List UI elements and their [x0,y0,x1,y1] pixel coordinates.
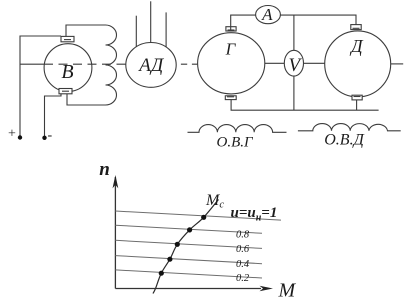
wire V to D [304,62,325,64]
wire + terminal riser [20,36,61,138]
brush D top [351,25,361,30]
svg-text:В: В [61,61,73,83]
graph axes [115,177,261,289]
line 0.4 [115,256,262,264]
svg-text:Мс: Мс [205,192,224,211]
node + terminal [18,135,22,139]
brush G top [226,27,236,31]
axis M horizontal [115,288,261,290]
wire top brush to field coil [66,25,106,36]
line 0.6 [115,240,262,248]
arrowhead n axis [113,175,119,188]
wire D shaft stub [391,63,404,65]
node dot line5 [159,271,164,276]
brush G bottom [225,96,236,100]
svg-text:0.2: 0.2 [236,273,250,284]
inductor O.V.D field winding [298,124,401,131]
curve Mc load [153,200,219,294]
node dot line3 [175,242,180,247]
svg-text:n: n [99,159,110,180]
wire top bus G to ammeter [231,15,256,29]
line 0.8 [115,225,262,233]
axis n vertical [114,177,116,289]
wire V top drop [293,15,295,50]
svg-text:u=uн=1: u=uн=1 [231,205,278,224]
wire bottom bus [231,100,379,111]
wire phase line L3 [165,12,167,51]
machine B (exciter) [44,44,92,92]
node dot line4 [167,257,172,262]
arrowhead M axis [260,286,274,292]
brush B top [61,36,74,41]
svg-text:0.6: 0.6 [236,244,250,255]
inductor O.V.G field winding [188,125,287,133]
generator G circle [198,33,265,94]
motor AD (induction) [126,43,176,88]
wire shaft dashed AD-G [176,63,197,65]
characteristic lines u [115,211,281,278]
wire G right to V [265,62,285,64]
brush B bottom [59,89,72,94]
svg-text:A: A [261,5,273,24]
svg-text:Д: Д [349,36,364,56]
ammeter A [256,6,281,24]
node - terminal [42,136,46,140]
svg-text:О.В.Д: О.В.Д [324,132,364,149]
line u=1 [115,211,281,220]
voltmeter V [284,50,303,76]
wire phase line L1 [135,16,137,50]
wire shaft dashed B-AD [44,63,126,65]
node dot line2 [187,227,192,232]
node dot line1 [201,215,206,220]
svg-text:Г: Г [225,40,237,59]
wire phase line L2 [150,1,152,46]
svg-text:0.4: 0.4 [236,259,250,270]
wire to armature left [20,63,44,65]
svg-text:M: M [278,280,297,302]
svg-text:0.8: 0.8 [236,230,250,241]
svg-text:АД: АД [137,55,164,76]
line 0.2 [115,270,262,278]
wire - terminal riser [45,94,62,138]
wire bottom brush to field coil [67,94,106,105]
wire D bottom brush drop [356,100,358,110]
motor D circle [325,31,391,97]
svg-text:О.В.Г: О.В.Г [216,135,253,151]
wire top bus ammeter to D [280,15,356,25]
svg-text:+: + [8,127,16,142]
svg-text:-: - [48,128,53,143]
inductor field winding of B [106,25,117,105]
wire V bottom drop [293,76,295,110]
brush D bottom [352,95,362,100]
